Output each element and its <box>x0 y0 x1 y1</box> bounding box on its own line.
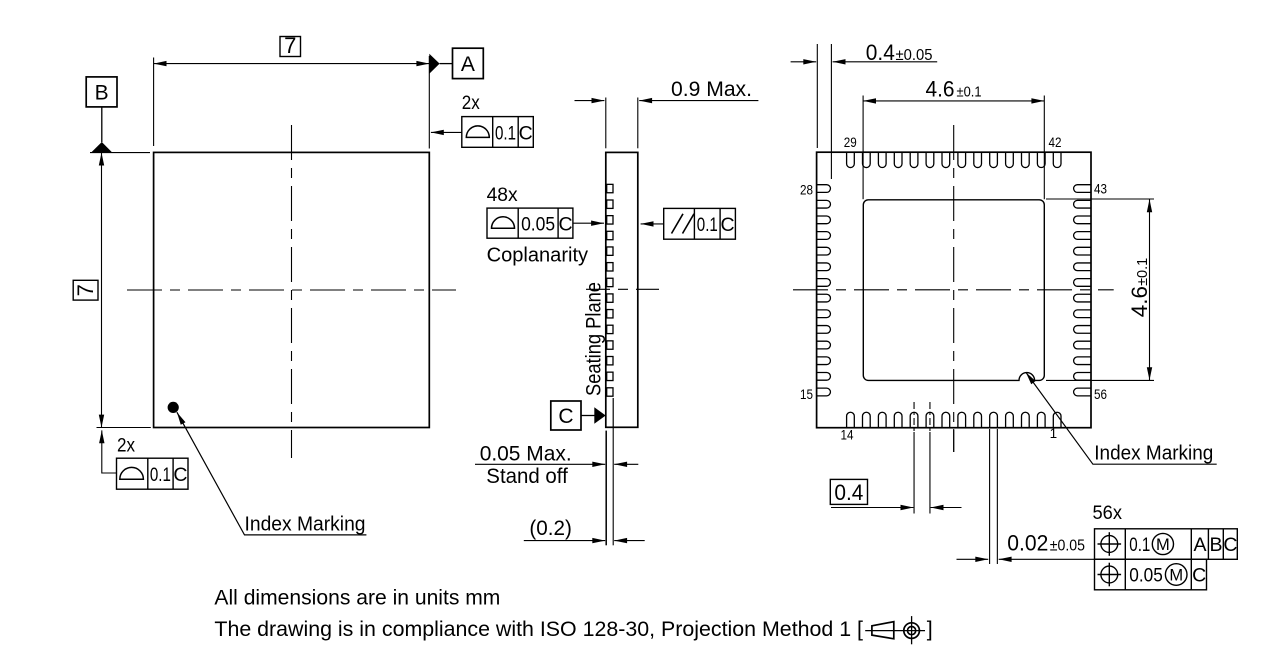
svg-text:C: C <box>1223 534 1237 556</box>
profile tolerance 2x (top right): leader arrow <box>431 131 462 133</box>
bottom view horizontal centerline <box>793 289 1114 291</box>
svg-text:(0.2): (0.2) <box>529 517 572 540</box>
svg-text:42: 42 <box>1049 135 1062 150</box>
top view horizontal centerline <box>127 289 456 291</box>
svg-text:4.6: 4.6 <box>926 76 955 101</box>
pitch 0.4: boxed value <box>830 479 867 504</box>
coplanarity feature control frame <box>487 208 573 238</box>
dimension 4.6±0.1 horizontal: dimension line <box>863 100 1044 102</box>
profile tolerance 2x (top right): feature control frame <box>462 117 534 148</box>
dimension 7 vertical: top extension line <box>90 152 150 154</box>
svg-text:0.4: 0.4 <box>834 480 863 505</box>
dimension (0.2): arrow lines <box>524 540 605 542</box>
parallelism symbol // <box>672 214 684 234</box>
profile tolerance 2x (bottom left): feature control frame <box>117 458 189 489</box>
dimension 7 vertical: dimension line with arrows <box>101 153 103 428</box>
svg-text:29: 29 <box>844 135 857 150</box>
svg-text:The drawing is in compliance w: The drawing is in compliance with ISO 12… <box>214 617 863 641</box>
dimension 0.9 Max: arrow lines <box>575 100 605 102</box>
dimension 4.6±0.1 vertical: dimension line <box>1149 199 1151 380</box>
svg-text:Coplanarity: Coplanarity <box>487 245 588 267</box>
position symbol row 2 <box>1101 566 1118 583</box>
svg-text:0.1: 0.1 <box>150 464 171 486</box>
svg-text:C: C <box>173 464 187 486</box>
profile tolerance 2x (bottom left): leader with arrow <box>102 430 117 473</box>
svg-text:Index Marking: Index Marking <box>245 513 366 535</box>
bottom view vertical centerline <box>953 125 955 452</box>
svg-text:7: 7 <box>284 33 296 58</box>
svg-text:Seating Plane: Seating Plane <box>583 282 606 396</box>
datum A: label box <box>453 48 484 78</box>
svg-text:Index Marking: Index Marking <box>1094 442 1213 464</box>
dimension 7 horizontal: boxed value 7 <box>280 37 301 57</box>
svg-text:2x: 2x <box>462 92 480 114</box>
dimension 0.4±0.05: arrow lines <box>791 61 817 63</box>
svg-text:1: 1 <box>1050 426 1058 441</box>
datum B: label box <box>86 77 117 107</box>
svg-text:48x: 48x <box>487 184 518 206</box>
svg-text:B: B <box>1209 534 1222 556</box>
dimension 7 vertical: bottom extension line <box>97 427 151 429</box>
M circle row 1 <box>1152 533 1173 554</box>
seating plane extension line <box>605 431 607 546</box>
datum C: label box <box>551 401 581 430</box>
svg-text:±0.05: ±0.05 <box>896 47 933 64</box>
svg-text:0.4: 0.4 <box>866 40 895 65</box>
bottom view left column terminals pins 28-15 <box>817 185 830 396</box>
datum A: stem <box>440 63 453 65</box>
svg-text:±0.05: ±0.05 <box>1050 538 1085 555</box>
datum C: filled triangle <box>594 407 605 424</box>
svg-text:56: 56 <box>1094 387 1107 402</box>
lead thickness extension line <box>612 427 614 545</box>
svg-text:28: 28 <box>800 183 813 198</box>
svg-text:0.1: 0.1 <box>495 123 516 145</box>
svg-text:]: ] <box>927 617 933 641</box>
parallelism feature control frame <box>664 208 736 239</box>
svg-text:A: A <box>1193 534 1206 556</box>
svg-text:±0.1: ±0.1 <box>957 84 982 100</box>
bottom view package body outline <box>817 152 1091 428</box>
datum A: filled triangle <box>429 54 439 74</box>
projection method symbol: target circles <box>904 623 920 639</box>
svg-text:All dimensions are in units mm: All dimensions are in units mm <box>214 586 500 610</box>
svg-text:C: C <box>558 405 573 428</box>
side view bottom lead thickness line <box>612 398 614 427</box>
bottom view bottom row terminals pins 14-1 <box>847 412 1061 427</box>
svg-text:C: C <box>721 214 735 236</box>
position symbol row 1 <box>1101 536 1118 553</box>
side view terminal squares <box>607 184 613 396</box>
svg-text:0.05 Max.: 0.05 Max. <box>480 443 572 466</box>
dimension 7 horizontal: dimension line with arrows <box>154 63 430 65</box>
top view package body outline <box>154 152 430 427</box>
dimension 7 vertical: boxed value 7 (rotated) <box>73 280 98 300</box>
projection method symbol: truncated cone <box>872 622 894 639</box>
exposed pad outline with index notch <box>863 200 1044 381</box>
parallelism leader arrow <box>641 223 664 225</box>
datum C: stem <box>581 415 595 417</box>
svg-text:56x: 56x <box>1093 502 1123 524</box>
index marking dot <box>168 402 179 413</box>
side view horizontal centerline <box>586 288 659 290</box>
svg-text:A: A <box>461 53 475 76</box>
dimension 4.6±0.1 horizontal: extension lines <box>862 96 864 200</box>
dimension 0.4±0.05: extension lines <box>816 44 818 148</box>
dimension 0.02±0.05: extension lines <box>989 429 991 564</box>
projection method symbol: centerline <box>865 630 925 632</box>
dimension 0.02±0.05: arrow lines <box>957 558 989 560</box>
svg-text:43: 43 <box>1094 182 1107 197</box>
svg-text:0.9 Max.: 0.9 Max. <box>671 78 752 101</box>
svg-text:14: 14 <box>841 427 854 442</box>
svg-text:B: B <box>95 82 109 105</box>
index marking leader (top view) <box>177 412 367 535</box>
svg-text:7: 7 <box>73 284 98 296</box>
side view package body outline <box>606 152 638 427</box>
datum B: filled triangle <box>91 142 112 152</box>
pitch 0.4: dimension arrow lines <box>831 507 913 509</box>
main centerline extension below bottom edge <box>953 429 955 452</box>
dimension 4.6±0.1 vertical: extension lines <box>1046 198 1154 200</box>
bottom view right column terminals pins 43-56 <box>1074 185 1091 396</box>
svg-text:C: C <box>558 214 572 236</box>
svg-text:0.1: 0.1 <box>1129 534 1150 556</box>
dimension 0.05 Max stand off: arrow lines <box>475 463 605 465</box>
coplanarity leader arrow <box>573 222 604 224</box>
svg-text:M: M <box>1169 566 1183 584</box>
top view vertical centerline <box>291 125 293 458</box>
datum B: stem <box>101 107 103 142</box>
svg-text:0.05: 0.05 <box>1129 564 1163 586</box>
bottom view top row terminals pins 29-42 <box>847 153 1061 168</box>
svg-text:0.02: 0.02 <box>1007 531 1048 556</box>
dimension 0.9 Max: extension lines <box>605 98 607 149</box>
svg-text:2x: 2x <box>117 434 135 456</box>
index marking leader (bottom view) <box>1026 372 1217 464</box>
svg-text:C: C <box>519 123 533 145</box>
svg-text:0.1: 0.1 <box>697 214 718 236</box>
M circle row 2 <box>1165 564 1187 586</box>
svg-text:Stand off: Stand off <box>486 465 568 488</box>
svg-text:0.05: 0.05 <box>521 214 555 236</box>
position tolerance frame row 2 <box>1095 559 1207 590</box>
svg-text:15: 15 <box>800 387 813 402</box>
position tolerance frame row 1 <box>1095 529 1238 560</box>
pitch 0.4: dashed pin centerlines <box>913 402 915 432</box>
svg-text:C: C <box>1192 564 1206 586</box>
dimension 7 horizontal: extension lines <box>153 58 155 147</box>
svg-text:M: M <box>1156 536 1170 554</box>
